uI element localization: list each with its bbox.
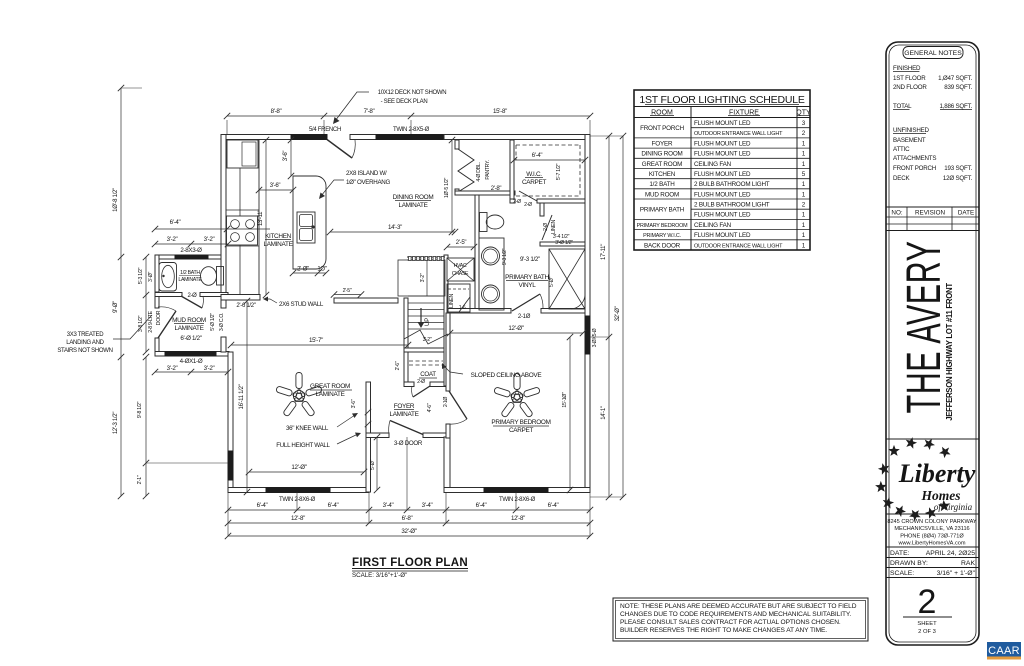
bottom extension lines (227, 492, 229, 536)
svg-text:FLUSH MOUNT LED: FLUSH MOUNT LED (694, 171, 751, 178)
svg-text:36" KNEE WALL: 36" KNEE WALL (286, 425, 329, 432)
dining east wall bottom stub (455, 189, 459, 195)
shower enclosure (549, 249, 585, 309)
svg-text:PRIMARY BATH: PRIMARY BATH (640, 207, 685, 214)
island dim 2-0 10 (293, 272, 326, 274)
svg-text:9'-Ø": 9'-Ø" (113, 301, 119, 313)
svg-text:6'-4": 6'-4" (532, 153, 543, 159)
top dimension line 8-8 / 7-8 / 15-8 (227, 115, 590, 117)
svg-text:DINING ROOM: DINING ROOM (641, 151, 682, 158)
bedroom 15-10 dim (569, 337, 571, 490)
svg-text:12Ø SQFT.: 12Ø SQFT. (943, 175, 973, 182)
svg-text:TWIN 2-8X5-Ø: TWIN 2-8X5-Ø (393, 127, 430, 133)
svg-text:2-1Ø: 2-1Ø (443, 397, 449, 408)
bedroom west wall upper (446, 313, 450, 391)
svg-text:UP: UP (424, 318, 431, 326)
svg-text:6'-4": 6'-4" (170, 219, 181, 226)
deck note leader arrow (335, 92, 369, 121)
kitchen counter inner edge (239, 168, 241, 295)
exterior top wall kitchen segment (221, 135, 293, 140)
schedule row 2: (merged) OUTDOOR ENTRANCE WALL LIGHT (634, 137, 810, 139)
svg-text:2-8X3-Ø: 2-8X3-Ø (180, 247, 202, 254)
dining east wall top (455, 140, 459, 149)
svg-text:BASEMENT: BASEMENT (893, 137, 926, 144)
svg-text:LAMINATE: LAMINATE (398, 202, 427, 209)
svg-text:SLOPED CEILING ABOVE: SLOPED CEILING ABOVE (471, 372, 542, 379)
window TWIN 2-8X6-0 great room (266, 488, 330, 493)
schedule row 3: FOYER FLUSH MOUNT LED (634, 147, 810, 149)
svg-text:8245 CROWN COLONY PARKWAY: 8245 CROWN COLONY PARKWAY (887, 519, 977, 525)
svg-text:PRIMARY BEDROOM: PRIMARY BEDROOM (637, 223, 688, 229)
svg-text:2'-Ø": 2'-Ø" (297, 267, 309, 273)
shower door swing (571, 294, 585, 309)
svg-text:3'-Ø": 3'-Ø" (148, 272, 154, 282)
svg-text:PANTRY.: PANTRY. (485, 160, 491, 180)
window 5/4 french threshold (291, 135, 327, 140)
svg-text:5'-3 1/2": 5'-3 1/2" (138, 267, 144, 284)
svg-text:Liberty: Liberty (898, 459, 976, 488)
svg-text:FIRST FLOOR PLAN: FIRST FLOOR PLAN (352, 557, 468, 569)
svg-text:JEFFERSON HIGHWAY LOT #11 FRON: JEFFERSON HIGHWAY LOT #11 FRONT (945, 283, 954, 421)
dining 14-3 dim (330, 231, 455, 233)
svg-text:FOYER: FOYER (394, 403, 415, 410)
svg-text:THE AVERY: THE AVERY (896, 241, 951, 414)
schedule row 7: 1/2 BATH 2 BULB BATHROOM LIGHT (634, 188, 810, 190)
svg-text:1Ø'-8 1/2": 1Ø'-8 1/2" (113, 188, 119, 212)
svg-text:PRIMARY W.I.C.: PRIMARY W.I.C. (643, 233, 681, 239)
svg-text:193 SQFT.: 193 SQFT. (944, 165, 972, 172)
svg-text:COAT: COAT (420, 371, 436, 378)
schedule row 6: KITCHEN FLUSH MOUNT LED (634, 178, 810, 180)
svg-text:TWIN 2-8X6-Ø: TWIN 2-8X6-Ø (279, 497, 316, 503)
kitchen refrigerator (227, 140, 258, 168)
pantry south wall (455, 191, 515, 195)
svg-text:6'-4": 6'-4" (257, 502, 268, 509)
bottom dim row 32-0 (228, 535, 590, 537)
schedule row 10: (merged) FLUSH MOUNT LED (634, 218, 810, 220)
svg-text:12'-8": 12'-8" (291, 515, 305, 522)
svg-text:1-6: 1-6 (459, 305, 466, 311)
bedroom entry door 2-10 leaf (449, 391, 467, 419)
mud room 3-2 dims (155, 371, 228, 373)
svg-text:5'-Ø": 5'-Ø" (370, 460, 376, 470)
stair break line (404, 330, 448, 344)
svg-text:VINYL: VINYL (519, 282, 537, 289)
window 4-0X1-0 mud room (165, 352, 216, 357)
schedule row 11: PRIMARY BEDROOM CEILING FAN (634, 229, 810, 231)
extension lines top (121, 87, 142, 89)
primary bath south wall right (541, 309, 585, 314)
coat closet south wall right (430, 382, 448, 387)
svg-text:10X12 DECK NOT SHOWN: 10X12 DECK NOT SHOWN (378, 90, 447, 96)
bottom dim row 6-4s (228, 509, 590, 511)
schedule row 5: GREAT ROOM CEILING FAN (634, 168, 810, 170)
svg-text:FLUSH MOUNT LED: FLUSH MOUNT LED (694, 151, 751, 158)
dining 2-5 dim (334, 294, 361, 296)
svg-text:APRIL 24, 2Ø25: APRIL 24, 2Ø25 (926, 550, 975, 557)
svg-text:12'-8": 12'-8" (511, 515, 525, 522)
svg-text:2'-8": 2'-8" (491, 186, 502, 192)
great room 16-11 dim (246, 301, 248, 492)
window 3-0X5-0 right wall (585, 316, 590, 354)
kitchen island 2X8 (293, 176, 326, 269)
dining room south wall (334, 298, 398, 303)
svg-text:3-ØX5-Ø: 3-ØX5-Ø (592, 328, 598, 347)
svg-text:5/4 FRENCH: 5/4 FRENCH (309, 127, 341, 133)
front door 3-0 leaf and swing (390, 421, 423, 435)
svg-text:15'-1Ø": 15'-1Ø" (562, 392, 568, 408)
svg-text:LAMINATE: LAMINATE (389, 411, 418, 418)
svg-text:DRAWN BY:: DRAWN BY: (890, 560, 928, 567)
svg-text:FRONT PORCH: FRONT PORCH (893, 165, 936, 172)
svg-text:GENERAL NOTES: GENERAL NOTES (904, 50, 962, 57)
svg-text:KITCHEN: KITCHEN (649, 171, 676, 178)
svg-text:2: 2 (802, 130, 806, 137)
svg-text:2X6 STUD WALL: 2X6 STUD WALL (279, 301, 324, 308)
svg-text:DATE: DATE (958, 210, 974, 217)
primary bath south wall left (448, 309, 511, 314)
general notes header box (903, 47, 963, 59)
svg-text:1/2 BATH: 1/2 BATH (649, 181, 675, 188)
svg-text:Homes: Homes (921, 488, 961, 503)
svg-text:2 OF 3: 2 OF 3 (918, 629, 936, 635)
landing note leader (113, 315, 152, 339)
svg-text:2-Ø: 2-Ø (524, 202, 532, 208)
svg-text:1: 1 (802, 181, 806, 188)
svg-text:PRIMARY BATH: PRIMARY BATH (505, 274, 549, 281)
svg-text:NO:: NO: (891, 210, 902, 217)
great room south wall (228, 488, 369, 493)
schedule row 9: PRIMARY BATH 2 BULB BATHROOM LIGHT (691, 208, 810, 210)
island sink (297, 212, 315, 243)
svg-text:TWIN 2-8X6-Ø: TWIN 2-8X6-Ø (499, 497, 536, 503)
svg-text:DECK: DECK (893, 175, 910, 182)
linen closet door leaf (542, 215, 552, 240)
svg-text:CHANGES DUE TO CODE REQUIREMEN: CHANGES DUE TO CODE REQUIREMENTS AND MEC… (620, 611, 851, 618)
half bath toilet (217, 267, 224, 286)
porch 5-0 dim (376, 437, 378, 490)
svg-text:9'-3 1/2": 9'-3 1/2" (520, 256, 540, 263)
stair treads (408, 302, 444, 304)
svg-text:2'-1": 2'-1" (137, 475, 143, 484)
svg-text:2'-6 1/2": 2'-6 1/2" (236, 303, 255, 309)
svg-text:FOYER: FOYER (652, 140, 673, 147)
svg-text:BUILDER RESERVES THE RIGHT TO: BUILDER RESERVES THE RIGHT TO MAKE CHANG… (620, 627, 827, 634)
mud room west wall lower (155, 338, 159, 355)
great room west wall (228, 352, 233, 492)
svg-text:NOTE: THESE PLANS ARE DEEMED A: NOTE: THESE PLANS ARE DEEMED ACCURATE BU… (620, 603, 857, 610)
half bath north wall (155, 255, 221, 259)
schedule row 12: PRIMARY W.I.C. FLUSH MOUNT LED (634, 239, 810, 241)
svg-text:3'-2": 3'-2" (204, 236, 215, 243)
svg-text:W.I.C.: W.I.C. (526, 171, 542, 178)
kitchen south wall (221, 295, 260, 301)
svg-text:SHEET: SHEET (917, 621, 937, 627)
svg-text:LANDING AND: LANDING AND (66, 340, 104, 346)
exterior right wall (585, 135, 590, 493)
window 2-0X5-0 great room (228, 451, 233, 480)
svg-text:6'-8": 6'-8" (402, 515, 413, 522)
primary bath vanity counter (479, 238, 504, 310)
wic south wall right (537, 199, 585, 203)
svg-text:6'-4": 6'-4" (476, 502, 487, 509)
svg-text:2'-5": 2'-5" (456, 240, 467, 246)
svg-text:1: 1 (802, 191, 806, 198)
great room 15-7 dim (231, 344, 408, 346)
svg-text:CEILING FAN: CEILING FAN (694, 161, 732, 168)
svg-text:1/2 BATH: 1/2 BATH (180, 270, 200, 276)
svg-text:OUTDOOR ENTRANCE WALL LIGHT: OUTDOOR ENTRANCE WALL LIGHT (694, 131, 783, 137)
primary bath toilet (480, 213, 488, 232)
svg-text:CHASE: CHASE (452, 271, 469, 277)
svg-text:1: 1 (802, 212, 806, 219)
liberty homes logo stars (888, 445, 900, 456)
address block (886, 513, 979, 515)
pantry bifold door 4-0 DBL (458, 149, 474, 192)
svg-text:GREAT ROOM: GREAT ROOM (642, 161, 682, 168)
svg-text:OUTDOOR ENTRANCE WALL LIGHT: OUTDOOR ENTRANCE WALL LIGHT (694, 243, 783, 249)
linen 2 closet (447, 284, 470, 312)
svg-text:2 BULB BATHROOM LIGHT: 2 BULB BATHROOM LIGHT (694, 202, 770, 209)
wic south wall stub (510, 199, 515, 203)
exterior left wall kitchen (221, 135, 226, 296)
mud room entry door 2-8 9-LITE leaf (158, 311, 176, 338)
svg-text:3'-6": 3'-6" (351, 399, 357, 408)
svg-text:DATE:: DATE: (890, 550, 910, 557)
svg-text:5'-Ø 1/2": 5'-Ø 1/2" (210, 313, 216, 331)
primary bath sink 1 (482, 247, 500, 265)
svg-text:13'-11": 13'-11" (258, 210, 264, 226)
window TWIN 2-8X5-0 (376, 135, 446, 140)
foyer front wall left of door (366, 433, 389, 438)
half bath 3-2 dims (155, 243, 228, 245)
svg-text:4-Ø DBL.: 4-Ø DBL. (476, 162, 482, 181)
svg-text:CARPET: CARPET (509, 427, 534, 434)
svg-text:1,Ø47 SQFT.: 1,Ø47 SQFT. (938, 75, 972, 82)
kitchen range with burners (227, 216, 258, 245)
half bath 6-4 dim (155, 228, 270, 230)
svg-text:12'-Ø": 12'-Ø" (508, 325, 523, 332)
svg-text:ATTACHMENTS: ATTACHMENTS (893, 155, 936, 162)
svg-text:PRIMARY BEDROOM: PRIMARY BEDROOM (491, 419, 550, 426)
svg-text:1: 1 (802, 161, 806, 168)
kitchen mud room wall upper (221, 295, 226, 308)
mud room south wall (155, 352, 229, 357)
wic shelving dashed (516, 144, 580, 146)
svg-text:LAMINATE: LAMINATE (174, 325, 203, 332)
svg-text:FLUSH MOUNT LED: FLUSH MOUNT LED (694, 212, 751, 219)
schedule row 4: DINING ROOM FLUSH MOUNT LED (634, 157, 810, 159)
svg-text:FLUSH MOUNT LED: FLUSH MOUNT LED (694, 120, 751, 127)
svg-text:1Ø" OVERHANG: 1Ø" OVERHANG (346, 179, 390, 186)
left dim column2 5-3 / 3-8 (145, 257, 147, 352)
svg-text:32'-Ø": 32'-Ø" (615, 306, 621, 321)
svg-text:2-1Ø: 2-1Ø (518, 314, 531, 320)
svg-text:4-ØX1-Ø: 4-ØX1-Ø (180, 358, 203, 365)
svg-text:5'-7 1/2": 5'-7 1/2" (556, 163, 562, 180)
svg-text:3: 3 (802, 120, 806, 127)
svg-text:4'-6": 4'-6" (427, 403, 433, 412)
svg-text:3'-Ø 1/2": 3'-Ø 1/2" (555, 240, 573, 246)
svg-text:1ST FLOOR: 1ST FLOOR (893, 75, 926, 82)
kitchen length dim line (265, 140, 267, 295)
svg-text:32'-Ø": 32'-Ø" (401, 528, 416, 535)
svg-text:5: 5 (802, 171, 806, 178)
svg-text:17'-11": 17'-11" (601, 244, 607, 260)
coat closet south wall left (404, 382, 414, 387)
svg-text:SCALE:: SCALE: (890, 570, 914, 577)
mud room west wall upper (155, 292, 159, 308)
svg-text:REVISION: REVISION (915, 210, 946, 217)
primary bath west wall (475, 195, 479, 313)
svg-text:LAMINATE: LAMINATE (315, 391, 344, 398)
svg-text:FRONT PORCH: FRONT PORCH (640, 125, 685, 132)
svg-text:3'-2": 3'-2" (423, 337, 432, 343)
foyer west wall and porch west jamb (366, 382, 371, 492)
great room 12-0 dim (249, 471, 364, 473)
kitchen 3-6 dim (259, 189, 293, 191)
revision table (886, 206, 979, 208)
svg-text:2-Ø: 2-Ø (417, 379, 425, 385)
svg-text:3'-4": 3'-4" (383, 502, 394, 509)
svg-text:2 BULB BATHROOM LIGHT: 2 BULB BATHROOM LIGHT (694, 181, 770, 188)
title block outer frame (886, 42, 979, 645)
wic door 2-0 leaf (519, 191, 537, 201)
svg-text:2ND FLOOR: 2ND FLOOR (893, 84, 927, 91)
schedule grid verticals (690, 107, 692, 251)
svg-text:SCALE: 3/16"+1'-Ø": SCALE: 3/16"+1'-Ø" (352, 572, 407, 579)
svg-text:2-Ø: 2-Ø (187, 293, 197, 299)
svg-text:14'-1": 14'-1" (601, 406, 607, 420)
svg-text:3'-2": 3'-2" (204, 365, 215, 372)
CAAR logo (987, 642, 1021, 657)
svg-text:3/16" + 1'-Ø": 3/16" + 1'-Ø" (937, 570, 976, 577)
extension line window sill (146, 462, 228, 464)
svg-text:MUD ROOM: MUD ROOM (172, 317, 206, 324)
french door leaf and swing (327, 140, 352, 159)
svg-text:6'-4": 6'-4" (328, 502, 339, 509)
kitchen counter front edge (258, 140, 260, 296)
svg-text:CEILING FAN: CEILING FAN (694, 222, 732, 229)
svg-text:2: 2 (918, 583, 937, 621)
date drawn scale rows (886, 546, 979, 548)
svg-text:2'-6": 2'-6" (395, 361, 401, 370)
svg-text:LINEN: LINEN (449, 294, 455, 308)
primary bedroom south wall (444, 488, 590, 493)
half bath door 2-0 leaf (181, 296, 202, 308)
dining 10-5 dim (451, 140, 453, 232)
window TWIN 2-8X6-0 bedroom (484, 488, 548, 493)
svg-text:2'-5": 2'-5" (343, 288, 352, 294)
svg-text:FINISHED: FINISHED (893, 65, 921, 72)
hvac chase (447, 258, 474, 281)
svg-text:16'-11 1/2": 16'-11 1/2" (239, 384, 245, 409)
svg-text:839 SQFT.: 839 SQFT. (944, 84, 972, 91)
linen closet west wall (540, 203, 544, 216)
schedule row 1: FRONT PORCH FLUSH MOUNT LED (691, 127, 810, 129)
stair coat west wall (404, 298, 408, 386)
svg-text:CAAR: CAAR (988, 645, 1020, 657)
svg-text:UNFINISHED: UNFINISHED (893, 127, 930, 134)
svg-text:8'-8": 8'-8" (271, 108, 282, 115)
bedroom 12-0 dim (450, 332, 583, 334)
kitchen counter divider lines (226, 209, 259, 211)
hvac 2-5 dim (447, 246, 474, 248)
right dim column 32-0 (622, 136, 624, 497)
left dim column 10-8 / 9-0 / 12-3 (120, 88, 122, 496)
primary bath sink 2 (482, 285, 500, 303)
left dim column2 9-8 / 2-1 (145, 357, 147, 496)
svg-text:15'-8": 15'-8" (493, 108, 507, 115)
foyer front wall right of door (423, 433, 449, 438)
svg-text:12'-3 1/2": 12'-3 1/2" (113, 412, 119, 434)
svg-text:3'-6": 3'-6" (283, 151, 289, 162)
primary bedroom ceiling fan (494, 374, 541, 418)
svg-text:BACK DOOR: BACK DOOR (644, 242, 681, 249)
svg-text:HVAC: HVAC (454, 263, 467, 269)
right extension lines (590, 135, 623, 137)
svg-text:LINEN: LINEN (551, 220, 557, 234)
svg-text:14'-3": 14'-3" (388, 224, 402, 231)
svg-text:5'-Ø": 5'-Ø" (549, 277, 555, 287)
half bath mud room divider east (200, 293, 228, 297)
wic 6-4 dim (514, 159, 585, 161)
svg-text:15'-7": 15'-7" (309, 337, 323, 344)
svg-text:www.LibertyHomesVA.com: www.LibertyHomesVA.com (897, 541, 965, 547)
coat closet shelf dashes (409, 360, 443, 362)
bedroom west wall above door (446, 424, 450, 438)
wic west wall (510, 140, 514, 203)
svg-text:GREAT ROOM: GREAT ROOM (310, 383, 350, 390)
half bath west wall (155, 255, 159, 296)
svg-text:LAMINATE: LAMINATE (178, 277, 202, 283)
svg-text:2-8 9-LITE: 2-8 9-LITE (148, 310, 154, 332)
window 2-8X3-0 half bath (175, 255, 208, 259)
svg-text:2: 2 (802, 202, 806, 209)
coat closet door 2-0 leaf (413, 386, 430, 397)
svg-text:3'-2": 3'-2" (167, 236, 178, 243)
svg-text:1: 1 (802, 151, 806, 158)
note box double frame (613, 598, 868, 641)
half bath tub (159, 263, 177, 292)
svg-text:LAMINATE: LAMINATE (263, 241, 292, 248)
svg-text:9'-3 1/2": 9'-3 1/2" (502, 248, 508, 265)
svg-text:MUD ROOM: MUD ROOM (645, 191, 679, 198)
lighting schedule table frame (634, 90, 810, 250)
exterior top wall right segment (444, 135, 590, 140)
svg-text:1: 1 (802, 232, 806, 239)
stair landing platform (398, 260, 445, 296)
svg-text:1: 1 (802, 140, 806, 147)
svg-text:FLUSH MOUNT LED: FLUSH MOUNT LED (694, 232, 751, 239)
svg-text:KITCHEN: KITCHEN (265, 233, 292, 240)
svg-text:FLUSH MOUNT LED: FLUSH MOUNT LED (694, 140, 751, 147)
porch east jamb bedroom west wall lower (444, 437, 450, 492)
svg-text:3-Ø DOOR: 3-Ø DOOR (394, 440, 423, 447)
svg-text:2X8 ISLAND W/: 2X8 ISLAND W/ (346, 170, 387, 177)
svg-text:ATTIC: ATTIC (893, 146, 910, 153)
primary bath door 2-10 leaf and swing (512, 294, 540, 311)
svg-text:6'-Ø 1/2": 6'-Ø 1/2" (180, 335, 201, 342)
svg-text:12'-Ø": 12'-Ø" (291, 464, 306, 471)
svg-text:PLEASE CONSULT SALES CONTRACT: PLEASE CONSULT SALES CONTRACT FOR ACTUAL… (620, 619, 841, 626)
schedule row 8: MUD ROOM FLUSH MOUNT LED (634, 198, 810, 200)
svg-text:1: 1 (802, 222, 806, 229)
stair east wall (444, 255, 448, 386)
great room ceiling fan (276, 373, 323, 417)
svg-text:RAK: RAK (961, 560, 975, 567)
svg-text:3'-4": 3'-4" (422, 502, 433, 509)
